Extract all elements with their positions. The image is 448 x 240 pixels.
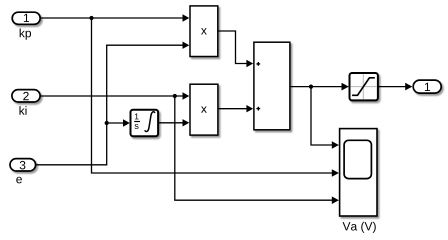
wire Integrator output to Product2 input 2 bbox=[158, 122, 185, 124]
inport 3 label e bbox=[16, 177, 22, 184]
product P1 x symbol bbox=[201, 28, 207, 34]
integrator fraction bar bbox=[134, 121, 140, 123]
outport 1 number bbox=[425, 83, 430, 91]
junction dot on ki wire bbox=[173, 94, 177, 98]
arrowhead into Product1 input 1 bbox=[183, 14, 190, 21]
arrowhead into Product1 input 2 bbox=[183, 42, 190, 49]
scope label Va (V) bbox=[343, 222, 376, 233]
product block P1 bbox=[190, 6, 218, 57]
junction dot on Sum output wire bbox=[309, 85, 313, 89]
inport 2 label ki bbox=[19, 106, 26, 115]
product P2 x symbol bbox=[201, 106, 207, 112]
saturation curve bbox=[352, 78, 375, 96]
wire Sum output to Saturation bbox=[290, 86, 344, 88]
sum plus sign 1 bbox=[256, 62, 260, 66]
arrowhead into Product2 input 1 bbox=[183, 92, 190, 99]
integrator s denominator bbox=[135, 124, 139, 129]
inport 2 number bbox=[23, 92, 28, 100]
arrowhead into Product2 input 2 bbox=[183, 119, 190, 126]
wire Saturation output to Out1 bbox=[378, 86, 407, 88]
inport 1 label kp bbox=[20, 29, 31, 40]
arrowhead into Saturation bbox=[342, 83, 349, 91]
wire Product1 output to Sum input 1 bbox=[218, 31, 249, 64]
saturation block bbox=[350, 73, 378, 100]
sum plus sign 2 bbox=[256, 107, 260, 111]
inport 3 number bbox=[20, 161, 26, 170]
junction dot on kp wire bbox=[89, 16, 93, 20]
arrowhead into Out1 bbox=[405, 83, 412, 91]
arrowhead into Scope input 1 bbox=[332, 141, 339, 149]
inport 2 block bbox=[12, 90, 40, 102]
saturation gray axes bbox=[351, 74, 377, 99]
scope block bbox=[340, 129, 377, 216]
integrator integral sign bbox=[145, 112, 155, 132]
arrowhead into Scope input 3 bbox=[332, 196, 339, 204]
inport 1 block bbox=[12, 12, 40, 24]
arrowhead into Integrator bbox=[123, 119, 130, 126]
outport 1 block bbox=[413, 80, 441, 93]
inport 1 number bbox=[24, 14, 29, 22]
wire Product2 output to Sum input 2 bbox=[218, 108, 249, 110]
wire ki branch down to Scope input 3 bbox=[175, 96, 334, 200]
wire kp branch down to Scope input 2 bbox=[92, 18, 335, 173]
arrowhead into Scope input 2 bbox=[332, 169, 339, 177]
integrator 1 numerator bbox=[135, 114, 139, 120]
integrator block 1/s bbox=[131, 110, 159, 137]
wire e: In3 up to Product1 input 2 bbox=[36, 45, 186, 165]
wire Sum output branch down to Scope input 1 bbox=[311, 87, 334, 145]
scope screen bbox=[344, 140, 371, 178]
inport 3 block bbox=[10, 159, 36, 171]
arrowhead into Sum input 2 bbox=[246, 105, 253, 112]
arrowhead into Sum input 1 bbox=[246, 60, 253, 67]
wire ki: In2 to Product2 input 1 bbox=[40, 95, 185, 97]
wire kp: In1 to Product1 input 1 bbox=[40, 17, 185, 19]
wire e branch to Integrator input bbox=[107, 122, 125, 124]
junction dot on e wire bbox=[105, 121, 109, 125]
sum block bbox=[254, 42, 290, 130]
product block P2 bbox=[190, 84, 218, 135]
